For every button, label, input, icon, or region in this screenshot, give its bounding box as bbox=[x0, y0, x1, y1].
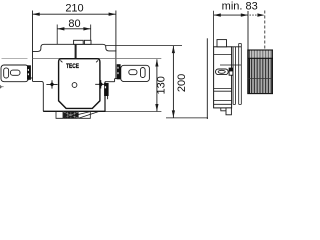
long diagonal leader bbox=[79, 111, 100, 118]
right step vertical long bbox=[104, 82, 106, 112]
dotted continuation bbox=[250, 13, 265, 16]
right rail bottom edge bbox=[115, 78, 122, 80]
left bracket plate bbox=[1, 65, 28, 82]
central housing box bbox=[59, 59, 100, 109]
dimension 200 text bbox=[176, 74, 188, 92]
right step vertical small bbox=[114, 79, 116, 82]
dimension 210 line bbox=[33, 13, 116, 16]
dark bar right of box bbox=[104, 83, 109, 99]
svg-text:TECE: TECE bbox=[66, 63, 79, 70]
left bracket vertical pill bbox=[4, 68, 9, 78]
bottom hatched valve detail bbox=[63, 112, 78, 119]
min. 83 right extension bbox=[247, 11, 249, 58]
dimension 80 line bbox=[57, 27, 90, 30]
right bracket dark block bbox=[117, 64, 121, 79]
side pill oval bbox=[218, 70, 225, 73]
right bracket plate bbox=[121, 65, 150, 81]
dimension 130 line bbox=[155, 59, 158, 111]
side bottom small box bbox=[226, 108, 231, 115]
svg-text:210: 210 bbox=[65, 3, 83, 15]
dimension 200 line bbox=[172, 46, 175, 118]
frame raised top edge bbox=[33, 44, 117, 51]
side body internal lines bbox=[214, 54, 242, 104]
right bracket vertical pill bbox=[141, 68, 146, 78]
side body top tab bbox=[217, 40, 227, 47]
min. 83 text bbox=[222, 1, 258, 13]
top tab 1 bbox=[74, 40, 84, 44]
center circle bbox=[72, 83, 77, 88]
box corner tick left bbox=[60, 60, 62, 62]
top tab 2 bbox=[84, 40, 91, 44]
svg-text:200: 200 bbox=[176, 74, 188, 92]
wall line bbox=[206, 38, 208, 119]
dashed cut line bbox=[264, 11, 266, 50]
200 top extension line bbox=[106, 45, 182, 47]
min. 83 left extension / body front edge bbox=[213, 11, 215, 47]
extension line right 80 bbox=[90, 25, 92, 45]
left cross mark bbox=[46, 80, 57, 88]
right step horizontal bbox=[105, 81, 115, 83]
dimension 80 text bbox=[68, 18, 80, 30]
side pill detail bbox=[216, 69, 229, 75]
protection box hatched bbox=[248, 50, 273, 94]
200 bottom extension line bbox=[166, 117, 208, 119]
bottom baseline bbox=[43, 110, 161, 112]
left bracket oval slot bbox=[10, 70, 20, 75]
dimension 130 text bbox=[155, 76, 167, 94]
svg-text:min. 83: min. 83 bbox=[222, 1, 258, 13]
bottom detail diagonal bbox=[63, 112, 90, 119]
dimension 210 text bbox=[65, 3, 83, 15]
min. 83 dimension line bbox=[214, 13, 248, 16]
left edge faint cross remnant bbox=[0, 85, 4, 89]
svg-text:130: 130 bbox=[155, 76, 167, 94]
right cross mark bbox=[95, 80, 106, 88]
extension line right 210 / frame right edge bbox=[115, 11, 117, 79]
extension line left 210 / frame left edge bbox=[32, 11, 34, 82]
svg-text:80: 80 bbox=[68, 18, 80, 30]
side dark latch bbox=[229, 68, 233, 75]
left bracket dark block bbox=[27, 65, 31, 80]
extension line left 80 bbox=[56, 25, 58, 45]
TECE logo text bbox=[66, 63, 79, 70]
side body bbox=[214, 47, 232, 108]
dark tick below tab1 bbox=[75, 45, 77, 59]
left step bbox=[33, 81, 44, 111]
box corner tick right bbox=[96, 60, 98, 62]
side bottom ledge bbox=[221, 108, 226, 111]
right bracket oval slot bbox=[129, 70, 137, 75]
long strut top line / 130 top extension bbox=[2, 57, 162, 59]
left rail bottom edge bbox=[29, 77, 33, 79]
bottom detail rect bbox=[56, 111, 90, 118]
side plate strips bbox=[232, 44, 242, 105]
